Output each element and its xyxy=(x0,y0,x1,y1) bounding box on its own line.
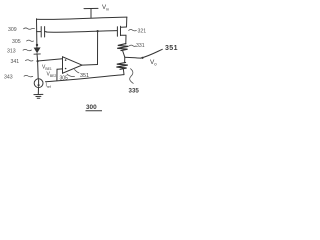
svg-text:341: 341 xyxy=(11,59,20,65)
svg-text:300: 300 xyxy=(86,104,97,111)
svg-text:309: 309 xyxy=(8,27,17,33)
svg-text:335: 335 xyxy=(129,88,140,95)
svg-text:351: 351 xyxy=(165,45,178,52)
svg-text:305: 305 xyxy=(60,76,69,82)
svg-text:313: 313 xyxy=(7,48,16,54)
svg-text:343: 343 xyxy=(4,75,13,81)
svg-text:305: 305 xyxy=(12,39,21,45)
svg-text:351: 351 xyxy=(80,73,89,79)
svg-text:321: 321 xyxy=(138,29,147,35)
svg-text:331: 331 xyxy=(136,43,145,49)
